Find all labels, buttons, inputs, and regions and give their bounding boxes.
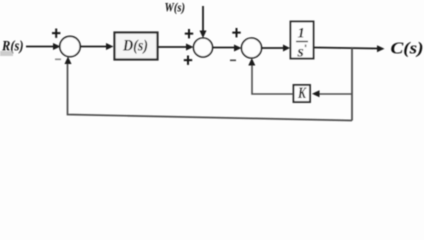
wire S1 to D(s) [80,46,107,48]
plus sign upper at S2 [185,29,193,38]
svg-text:C(s): C(s) [391,39,424,58]
svg-text:W(s): W(s) [165,0,186,15]
summing junction S2 [194,38,213,57]
wire D(s) to summer S2 [158,46,187,48]
block K [294,85,311,102]
node takeoff point on output wire [351,48,353,121]
scan smudge noise at left edge [0,51,13,56]
summing junction S1 [60,36,80,56]
minus sign at S3 feedback input [230,60,236,62]
wire takeoff to K block [318,93,352,95]
block D(s) [115,33,158,60]
wire R(s) to summer S1 [26,46,54,48]
svg-text:s: s [297,44,304,61]
plus sign at S1 input [52,29,60,38]
block 1/s integrator [291,22,314,59]
minus sign at S1 feedback input [55,59,61,61]
summing junction S3 [242,38,262,58]
plus sign at S3 input [232,28,240,37]
svg-text:D(s): D(s) [122,38,148,55]
wire S3 to integrator block [261,47,284,49]
wire outer feedback loop [68,63,353,121]
svg-text:1: 1 [298,26,305,42]
svg-text:K: K [297,85,307,102]
wire W(s) down into S2 [202,6,204,32]
wire S2 to summer S3 [213,47,235,49]
wire integrator to C(s) output [314,48,378,49]
wire K to S3 feedback [252,63,293,94]
plus sign lower at S2 [184,56,192,65]
